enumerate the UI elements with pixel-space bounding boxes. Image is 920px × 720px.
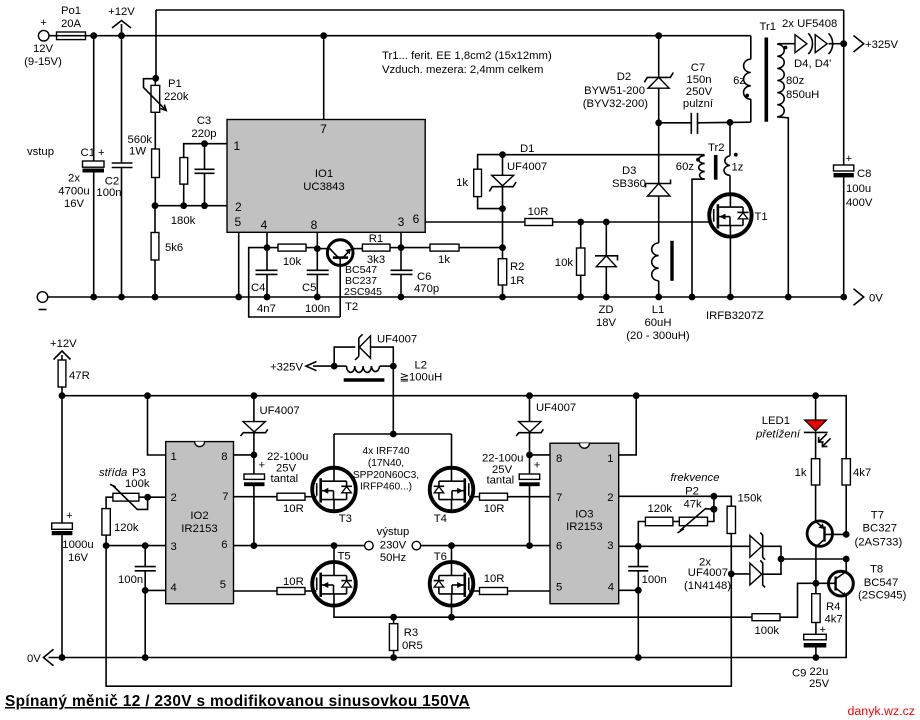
svg-text:2x: 2x bbox=[68, 173, 80, 185]
0V rail bottom bbox=[27, 649, 846, 665]
svg-text:150k: 150k bbox=[738, 493, 763, 505]
pin1 node line bbox=[184, 144, 227, 158]
svg-text:C4: C4 bbox=[251, 282, 265, 294]
resistor 120k left bbox=[102, 509, 139, 546]
svg-text:R4: R4 bbox=[826, 601, 840, 613]
source line T5 T6 bbox=[334, 606, 752, 618]
svg-text:22-100u: 22-100u bbox=[482, 453, 523, 465]
svg-text:UF4007: UF4007 bbox=[688, 567, 728, 579]
svg-text:120k: 120k bbox=[648, 503, 673, 515]
svg-text:+325V: +325V bbox=[270, 362, 303, 374]
svg-text:47k: 47k bbox=[683, 499, 702, 511]
svg-text:150n: 150n bbox=[686, 74, 711, 86]
svg-text:4n7: 4n7 bbox=[257, 303, 276, 315]
svg-text:18V: 18V bbox=[596, 317, 617, 329]
svg-text:230V: 230V bbox=[380, 540, 407, 552]
output terminal 2 bbox=[412, 541, 421, 550]
svg-text:+: + bbox=[66, 510, 73, 522]
svg-text:7: 7 bbox=[222, 491, 228, 503]
pin2 node line bbox=[155, 205, 227, 207]
svg-text:SB360: SB360 bbox=[612, 178, 646, 190]
resistor 180k bbox=[171, 158, 196, 228]
svg-text:400V: 400V bbox=[846, 197, 873, 209]
resistor 5k6 bbox=[151, 206, 183, 297]
svg-text:Tr1... ferit. EE 1,8cm2 (15x12: Tr1... ferit. EE 1,8cm2 (15x12mm) bbox=[382, 50, 552, 62]
capacitor tantal right 22-100u bbox=[482, 453, 541, 546]
svg-text:BYW51-200: BYW51-200 bbox=[584, 85, 645, 97]
svg-text:100n: 100n bbox=[118, 574, 143, 586]
svg-text:25V: 25V bbox=[809, 678, 830, 690]
svg-text:80z: 80z bbox=[786, 75, 805, 87]
IC IO2 IR2153 bbox=[166, 442, 234, 604]
svg-text:IR2153: IR2153 bbox=[566, 521, 602, 533]
svg-text:Tr1: Tr1 bbox=[760, 21, 777, 33]
0V rail top section bbox=[48, 296, 844, 298]
capacitor 100n right bbox=[628, 546, 666, 590]
resistor 10R gate bbox=[525, 206, 709, 226]
resistor R3 0R5 bbox=[389, 617, 422, 657]
svg-text:560k: 560k bbox=[128, 134, 153, 146]
svg-text:1k: 1k bbox=[795, 467, 807, 479]
+12V rail bottom section bbox=[62, 396, 846, 459]
transistor T7 BC327 bbox=[807, 510, 902, 584]
svg-text:P1: P1 bbox=[168, 78, 182, 90]
wire pin8 IO3 bbox=[530, 454, 551, 456]
svg-text:16V: 16V bbox=[68, 552, 89, 564]
capacitor C6 470p bbox=[391, 248, 440, 297]
svg-text:100n: 100n bbox=[96, 187, 121, 199]
svg-text:20A: 20A bbox=[61, 18, 82, 30]
svg-text:+: + bbox=[259, 460, 266, 472]
capacitor C8 100u 400V bbox=[834, 153, 873, 297]
svg-text:T8: T8 bbox=[870, 564, 883, 576]
diode D3 SB360 bbox=[612, 123, 671, 243]
resistor 10k timing bbox=[267, 244, 317, 268]
resistor 100k sense bbox=[752, 583, 816, 637]
transistor T8 BC547 bbox=[816, 559, 907, 658]
transformer Tr1 bbox=[733, 21, 819, 297]
ground terminal - bbox=[37, 292, 48, 310]
svg-text:6: 6 bbox=[413, 212, 420, 226]
svg-text:+: + bbox=[40, 17, 47, 29]
svg-text:120k: 120k bbox=[114, 522, 139, 534]
svg-text:+: + bbox=[98, 147, 105, 159]
svg-text:L1: L1 bbox=[652, 304, 665, 316]
midpoint line right bbox=[421, 545, 550, 547]
wire D1 node to Tr2 bbox=[503, 154, 705, 156]
capacitor C1 2x4700u 16V bbox=[58, 36, 105, 297]
svg-text:50Hz: 50Hz bbox=[380, 552, 407, 564]
svg-text:(2SC945): (2SC945) bbox=[858, 590, 907, 602]
transistor T6 bbox=[430, 546, 474, 606]
svg-text:220k: 220k bbox=[164, 91, 189, 103]
svg-text:IO2: IO2 bbox=[190, 510, 208, 522]
svg-text:+: + bbox=[820, 624, 827, 636]
svg-text:180k: 180k bbox=[171, 215, 196, 227]
resistor 4k7 top bbox=[842, 459, 871, 535]
+325V feed arrow bbox=[270, 362, 334, 374]
capacitor 1000u 16V bbox=[52, 396, 94, 658]
resistor 120k right bbox=[638, 503, 679, 546]
resistor 1k after pin3 bbox=[401, 244, 503, 266]
svg-text:6: 6 bbox=[221, 539, 227, 551]
transistor T2 BC547 bbox=[317, 240, 382, 317]
svg-text:IRFP460...): IRFP460...) bbox=[360, 482, 412, 493]
svg-text:C8: C8 bbox=[857, 168, 871, 180]
wire T2 base loop bbox=[249, 248, 341, 317]
svg-text:T6: T6 bbox=[434, 551, 447, 563]
input terminal + bbox=[38, 17, 49, 41]
svg-text:T2: T2 bbox=[345, 301, 358, 313]
svg-text:1k: 1k bbox=[456, 177, 468, 189]
+12V arrow symbol bbox=[108, 6, 135, 36]
wire pin7 to +12V rail bbox=[323, 36, 325, 120]
op IC IO1 UC3843 bbox=[227, 120, 425, 233]
resistor 150k bbox=[727, 493, 762, 574]
diode D1 UF4007 bbox=[489, 143, 547, 209]
svg-text:R1: R1 bbox=[369, 233, 383, 245]
svg-text:+12V: +12V bbox=[50, 338, 77, 350]
svg-text:4k7: 4k7 bbox=[853, 467, 871, 479]
wire top rail down to P1 bbox=[155, 10, 157, 78]
svg-text:4700u: 4700u bbox=[58, 186, 89, 198]
svg-text:2x UF5408: 2x UF5408 bbox=[782, 18, 837, 30]
capacitor 100n left bbox=[118, 546, 156, 591]
svg-text:7: 7 bbox=[320, 122, 327, 136]
svg-text:D4, D4': D4, D4' bbox=[794, 58, 831, 70]
svg-text:Vzduch. mezera: 2,4mm celkem: Vzduch. mezera: 2,4mm celkem bbox=[382, 64, 543, 76]
pin3 IO3 CT line bbox=[619, 545, 750, 547]
resistor 10k gate-source bbox=[555, 222, 585, 297]
wire pin4 IO3 bbox=[619, 589, 639, 591]
svg-text:+325V: +325V bbox=[865, 39, 898, 51]
feedback wire long bottom bbox=[106, 546, 731, 687]
svg-text:5: 5 bbox=[220, 579, 226, 591]
svg-text:ZD: ZD bbox=[598, 304, 613, 316]
svg-text:4x IRF740: 4x IRF740 bbox=[363, 446, 410, 457]
svg-text:2: 2 bbox=[607, 492, 613, 504]
svg-text:4k7: 4k7 bbox=[825, 614, 843, 626]
svg-text:tantal: tantal bbox=[487, 475, 515, 487]
trimmer P3 strida 100k bbox=[99, 467, 166, 509]
svg-text:+: + bbox=[534, 460, 541, 472]
wire pin1 IO2 bbox=[148, 396, 166, 455]
resistor 10R T6 gate bbox=[473, 573, 550, 595]
capacitor C5 100n bbox=[302, 249, 330, 315]
svg-text:R2: R2 bbox=[510, 261, 524, 273]
svg-text:16V: 16V bbox=[64, 198, 85, 210]
svg-text:D1: D1 bbox=[520, 143, 534, 155]
svg-text:(BYV32-200): (BYV32-200) bbox=[583, 98, 649, 110]
0V arrow right bbox=[854, 289, 884, 305]
+12V rail top bbox=[94, 35, 751, 37]
svg-text:8: 8 bbox=[556, 453, 562, 465]
svg-text:47R: 47R bbox=[69, 370, 90, 382]
svg-text:danyk.wz.cz: danyk.wz.cz bbox=[848, 704, 915, 718]
svg-text:22-100u: 22-100u bbox=[267, 451, 308, 463]
wire T1 source to ground bbox=[729, 237, 731, 297]
svg-text:22u: 22u bbox=[810, 666, 829, 678]
resistor R2 1R bbox=[498, 248, 524, 297]
transistor T5 bbox=[312, 546, 356, 606]
svg-text:10R: 10R bbox=[283, 576, 304, 588]
wire pin4 IO2 bbox=[145, 589, 166, 591]
svg-text:1: 1 bbox=[171, 451, 177, 463]
svg-text:C5: C5 bbox=[302, 282, 316, 294]
svg-text:IRFB3207Z: IRFB3207Z bbox=[706, 310, 764, 322]
svg-text:2: 2 bbox=[171, 492, 177, 504]
svg-text:1: 1 bbox=[607, 453, 613, 465]
svg-text:T4: T4 bbox=[434, 513, 447, 525]
svg-text:8: 8 bbox=[311, 218, 318, 232]
top rail to +325V bbox=[156, 9, 844, 11]
svg-text:10R: 10R bbox=[283, 503, 304, 515]
bridge top rail bbox=[334, 433, 452, 435]
svg-text:≧100uH: ≧100uH bbox=[400, 372, 443, 384]
svg-text:+12V: +12V bbox=[108, 6, 135, 18]
svg-text:IR2153: IR2153 bbox=[181, 523, 217, 535]
resistor 47R bbox=[58, 360, 90, 396]
+325V arrow bbox=[854, 36, 899, 53]
+12V arrow bottom bbox=[50, 338, 77, 360]
svg-text:R3: R3 bbox=[404, 627, 418, 639]
capacitor C3 220p bbox=[191, 115, 216, 206]
diode UF4007 across L2 bbox=[334, 334, 417, 367]
wire L2 to bridge rail bbox=[392, 366, 394, 434]
wire pin5 to ground bbox=[238, 232, 240, 297]
svg-text:(9-15V): (9-15V) bbox=[24, 56, 62, 68]
svg-text:6: 6 bbox=[556, 541, 562, 553]
svg-text:5: 5 bbox=[235, 215, 242, 229]
wire pin3 bbox=[400, 232, 402, 247]
svg-text:0V: 0V bbox=[27, 653, 41, 665]
wire top rail down to +325V node bbox=[843, 10, 845, 165]
junction P1 top bbox=[152, 75, 159, 82]
svg-text:BC327: BC327 bbox=[863, 523, 898, 535]
LED1 pretizeni bbox=[755, 396, 831, 459]
svg-text:4: 4 bbox=[171, 582, 177, 594]
svg-text:1k: 1k bbox=[438, 254, 450, 266]
svg-text:100n: 100n bbox=[642, 574, 667, 586]
ground junctions bbox=[90, 294, 97, 301]
svg-text:6z: 6z bbox=[733, 75, 745, 87]
svg-text:3: 3 bbox=[171, 541, 177, 553]
svg-text:12V: 12V bbox=[33, 43, 54, 55]
svg-text:60z: 60z bbox=[676, 161, 695, 173]
svg-text:přetížení: přetížení bbox=[755, 429, 802, 441]
junction T8 base bbox=[813, 580, 820, 587]
svg-text:T7: T7 bbox=[871, 510, 884, 522]
svg-text:5: 5 bbox=[556, 582, 562, 594]
SECTION: top converter bbox=[24, 5, 898, 342]
svg-text:C2: C2 bbox=[105, 176, 119, 188]
svg-text:+: + bbox=[846, 153, 853, 165]
svg-text:100n: 100n bbox=[305, 303, 330, 315]
svg-text:1R: 1R bbox=[510, 275, 524, 287]
svg-text:4: 4 bbox=[608, 582, 614, 594]
diode D6 UF4007 bbox=[684, 556, 846, 592]
svg-text:D3: D3 bbox=[622, 165, 636, 177]
svg-text:T3: T3 bbox=[339, 513, 352, 525]
svg-text:UC3843: UC3843 bbox=[303, 181, 344, 193]
svg-text:10R: 10R bbox=[484, 573, 505, 585]
svg-text:1z: 1z bbox=[732, 162, 744, 174]
svg-text:P2: P2 bbox=[685, 486, 699, 498]
svg-text:5k6: 5k6 bbox=[165, 242, 183, 254]
svg-text:UF4007: UF4007 bbox=[507, 161, 547, 173]
resistor 560k 1W bbox=[128, 134, 160, 206]
capacitor tantal left 22-100u bbox=[244, 451, 308, 546]
inductor L1 60uH bbox=[626, 241, 690, 342]
svg-text:C7: C7 bbox=[691, 62, 705, 74]
svg-text:10R: 10R bbox=[484, 503, 505, 515]
svg-text:T5: T5 bbox=[338, 551, 351, 563]
resistor 10R T4 gate bbox=[473, 493, 550, 515]
svg-text:2: 2 bbox=[235, 200, 242, 214]
svg-text:10R: 10R bbox=[528, 206, 549, 218]
transformer Tr2 bbox=[676, 122, 744, 297]
pin2 IO3 line to 150k bbox=[619, 496, 732, 506]
wire D1 node down bbox=[502, 209, 504, 248]
resistor 1k right bbox=[795, 459, 820, 522]
wire pin4 bbox=[266, 232, 268, 247]
svg-text:C6: C6 bbox=[417, 271, 431, 283]
pin6 gate line bbox=[425, 221, 525, 223]
resistor 10R T5 gate bbox=[234, 576, 313, 595]
svg-text:100k: 100k bbox=[755, 625, 780, 637]
svg-text:výstup: výstup bbox=[377, 526, 410, 538]
svg-text:100k: 100k bbox=[125, 478, 150, 490]
capacitor C4 4n7 bbox=[251, 248, 278, 315]
svg-text:C3: C3 bbox=[197, 115, 211, 127]
output terminal 1 bbox=[365, 541, 374, 550]
svg-text:1000u: 1000u bbox=[62, 539, 93, 551]
svg-text:(17N40,: (17N40, bbox=[368, 458, 404, 469]
svg-text:7: 7 bbox=[556, 492, 562, 504]
zener ZD 18V bbox=[595, 222, 618, 329]
trimmer P2 47k frekvence bbox=[671, 472, 720, 533]
svg-text:(2AS733): (2AS733) bbox=[855, 537, 903, 549]
SECTION: bottom inverter bbox=[27, 334, 907, 691]
pin3 IO2 line bbox=[106, 545, 166, 547]
svg-text:tantal: tantal bbox=[271, 473, 299, 485]
svg-text:D2: D2 bbox=[617, 71, 631, 83]
svg-text:LED1: LED1 bbox=[762, 415, 790, 427]
svg-text:60uH: 60uH bbox=[644, 317, 671, 329]
diode D2 BYW51-200 bbox=[583, 36, 674, 123]
svg-text:Tr2: Tr2 bbox=[708, 142, 725, 154]
junction bbox=[118, 32, 125, 39]
transistor T4 bbox=[430, 434, 474, 525]
capacitor C7 150n 250V bbox=[659, 62, 751, 134]
svg-text:vstup: vstup bbox=[27, 146, 54, 158]
transistor T3 bbox=[312, 434, 356, 525]
junction R2 top bbox=[499, 244, 506, 251]
svg-text:pulzní: pulzní bbox=[683, 98, 714, 110]
capacitor C2 100n bbox=[96, 36, 132, 297]
svg-text:3k3: 3k3 bbox=[367, 254, 385, 266]
svg-text:C1: C1 bbox=[81, 147, 95, 159]
svg-text:T1: T1 bbox=[755, 211, 768, 223]
svg-text:0R5: 0R5 bbox=[402, 640, 423, 652]
svg-text:0V: 0V bbox=[869, 293, 883, 305]
svg-text:L2: L2 bbox=[415, 360, 428, 372]
svg-text:8: 8 bbox=[221, 451, 227, 463]
junction bbox=[90, 32, 97, 39]
IC IO3 IR2153 bbox=[550, 443, 619, 604]
svg-text:4: 4 bbox=[261, 218, 268, 232]
svg-text:C9: C9 bbox=[792, 668, 806, 680]
svg-text:3: 3 bbox=[398, 215, 405, 229]
svg-text:IO1: IO1 bbox=[315, 168, 333, 180]
svg-text:BC547: BC547 bbox=[864, 577, 899, 589]
diode UF4007 bootstrap right bbox=[516, 396, 576, 455]
resistor 1k beside D1 bbox=[456, 155, 502, 209]
wire pin1 IO3 bbox=[619, 396, 637, 455]
svg-text:UF4007: UF4007 bbox=[260, 405, 300, 417]
diodes D4 D4' 2x UF5408 bbox=[782, 18, 844, 70]
svg-text:10k: 10k bbox=[283, 256, 302, 268]
svg-text:10k: 10k bbox=[555, 257, 574, 269]
svg-text:1W: 1W bbox=[129, 146, 146, 158]
wire terminal to fuse bbox=[49, 35, 94, 37]
resistor R4 4k7 bbox=[812, 583, 843, 634]
inductor L2 100uH bbox=[331, 360, 442, 384]
wire pin8 IO2 bbox=[234, 454, 254, 456]
diode D5 UF4007 bbox=[750, 533, 781, 560]
junction D1 top bbox=[499, 151, 506, 158]
svg-text:220p: 220p bbox=[191, 128, 216, 140]
svg-text:1: 1 bbox=[234, 139, 241, 153]
svg-text:střída: střída bbox=[99, 467, 127, 479]
svg-text:850uH: 850uH bbox=[786, 89, 819, 101]
capacitor C9 22u 25V bbox=[792, 624, 830, 690]
svg-text:Spínaný měnič 12 / 230V s modi: Spínaný měnič 12 / 230V s modifikovanou … bbox=[5, 693, 470, 710]
svg-text:(20 - 300uH): (20 - 300uH) bbox=[626, 330, 690, 342]
fuse Po1 20A bbox=[57, 5, 86, 40]
wire pin8 bbox=[316, 232, 318, 248]
svg-text:SPP20N60C3,: SPP20N60C3, bbox=[353, 470, 419, 481]
midpoint line left bbox=[234, 545, 365, 547]
svg-text:250V: 250V bbox=[686, 86, 713, 98]
svg-text:UF4007: UF4007 bbox=[377, 334, 417, 346]
svg-text:IO3: IO3 bbox=[575, 509, 593, 521]
svg-text:Po1: Po1 bbox=[61, 5, 81, 17]
svg-text:470p: 470p bbox=[414, 283, 439, 295]
transistor T1 IRFB3207Z bbox=[706, 194, 768, 322]
resistor 10R T3 gate bbox=[234, 493, 313, 515]
svg-text:UF4007: UF4007 bbox=[536, 402, 576, 414]
diode UF4007 bootstrap left bbox=[241, 396, 300, 455]
svg-text:frekvence: frekvence bbox=[671, 472, 720, 484]
trimmer P1 220k bbox=[144, 78, 189, 149]
svg-text:3: 3 bbox=[607, 540, 613, 552]
svg-text:100u: 100u bbox=[846, 183, 871, 195]
svg-text:(1N4148): (1N4148) bbox=[684, 580, 731, 592]
resistor R1 3k3 bbox=[362, 233, 401, 266]
